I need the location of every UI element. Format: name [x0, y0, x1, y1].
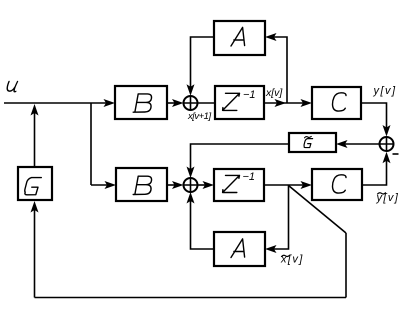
wire left vertical up into G: [34, 206, 36, 298]
label A (lower): [231, 239, 245, 258]
wire branch down to lower A input: [269, 185, 289, 249]
summing junction S1: [184, 96, 198, 110]
label tilde of xtilde[v]: [282, 255, 290, 256]
wire G output up to input line: [34, 110, 36, 167]
label Z (lower): [223, 175, 240, 192]
block upper B: [115, 86, 167, 119]
label Gtilde letter: [304, 139, 313, 148]
svg-text:−1: −1: [243, 89, 256, 101]
summing junction S2: [184, 178, 198, 192]
block G: [18, 167, 52, 200]
label A (upper): [231, 27, 245, 46]
wire bottom feedback line: [35, 297, 347, 299]
wire lower B to S2: [167, 184, 180, 186]
wire upper A feedback down into S1 top: [191, 37, 215, 92]
node U branch point: [90, 103, 92, 185]
block lower Z^-1: [214, 169, 264, 201]
label C (lower): [332, 175, 346, 193]
wire upper Z output to upper C: [264, 102, 308, 104]
wire upper B to summing junction S1: [167, 102, 180, 104]
wire upper C output y[v] down to S3: [361, 103, 387, 132]
node arrow into upper B: [104, 99, 116, 107]
label U input: [6, 82, 19, 92]
block upper C: [312, 87, 361, 119]
svg-text:x[v]: x[v]: [280, 254, 304, 266]
wire lower Z output to lower C: [264, 184, 308, 186]
label B (upper): [133, 94, 151, 112]
label C (upper): [332, 93, 346, 111]
wire lower C output up into S3 bottom: [362, 156, 387, 185]
label Z (upper): [223, 93, 240, 110]
summing junction S3: [380, 137, 394, 151]
wire right vertical of bottom feedback: [345, 233, 347, 298]
wire S3 output to Gtilde: [340, 143, 380, 145]
svg-text:y[v]: y[v]: [373, 85, 397, 97]
svg-text:y[v]: y[v]: [376, 192, 400, 204]
block upper Z^-1: [215, 86, 264, 119]
wire S2 to lower Z: [198, 184, 211, 186]
label Gtilde tilde: [305, 136, 312, 137]
block lower C: [312, 169, 362, 200]
block lower B: [116, 168, 167, 201]
label tilde of ytilde[v]: [378, 193, 386, 194]
minus sign at S3: [393, 153, 399, 155]
wire Gtilde output down into S2 top: [191, 144, 290, 174]
wire x[v] branch up to upper A: [269, 37, 287, 103]
svg-text:x[v+1]: x[v+1]: [187, 111, 211, 122]
label B (lower): [133, 176, 151, 194]
block Gtilde: [289, 133, 336, 152]
svg-text:−1: −1: [243, 171, 256, 183]
wire S1 to upper Z: [198, 102, 215, 104]
svg-text:x[v]: x[v]: [265, 87, 283, 99]
wire U input line: [4, 102, 112, 104]
wire branch to lower B: [91, 184, 113, 186]
block lower A: [214, 232, 265, 266]
wire diagonal from lower Z output junction: [289, 186, 347, 234]
block upper A: [214, 21, 265, 55]
wire lower A output up into S2 bottom: [191, 196, 215, 249]
label G: [25, 178, 42, 195]
